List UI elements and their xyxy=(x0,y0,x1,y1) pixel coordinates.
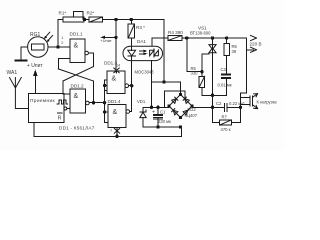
svg-text:R: R xyxy=(58,115,62,121)
svg-text:DD1.2: DD1.2 xyxy=(71,84,84,89)
svg-text:R3 *: R3 * xyxy=(136,25,145,30)
svg-text:DD1.1: DD1.1 xyxy=(70,32,83,37)
svg-text:220 мк: 220 мк xyxy=(158,119,171,124)
svg-text:DD1.4: DD1.4 xyxy=(108,99,121,104)
svg-text:C1: C1 xyxy=(160,110,166,115)
svg-text:&: & xyxy=(112,76,117,83)
svg-text:R4 390: R4 390 xyxy=(168,30,183,35)
svg-text:КЦ407: КЦ407 xyxy=(185,113,198,118)
svg-text:0.01 мк: 0.01 мк xyxy=(218,83,232,88)
svg-text:&: & xyxy=(74,93,79,100)
svg-text:&: & xyxy=(113,109,118,116)
svg-text:220 В: 220 В xyxy=(250,42,262,47)
svg-text:1: 1 xyxy=(61,36,63,40)
svg-text:DD1 - К561ЛА7: DD1 - К561ЛА7 xyxy=(59,125,95,130)
svg-text:2: 2 xyxy=(61,41,63,45)
svg-text:470 к: 470 к xyxy=(221,127,231,132)
svg-text:VS1: VS1 xyxy=(198,25,207,30)
svg-text:330: 330 xyxy=(191,71,199,76)
svg-text:7: 7 xyxy=(110,129,112,133)
svg-text:К нагрузке: К нагрузке xyxy=(257,99,278,104)
svg-text:39: 39 xyxy=(232,49,237,54)
svg-text:RG1: RG1 xyxy=(30,32,41,38)
svg-text:ВТ138-600: ВТ138-600 xyxy=(190,31,211,36)
svg-text:C3: C3 xyxy=(221,67,227,72)
svg-text:R1*: R1* xyxy=(59,11,67,16)
svg-text:R7: R7 xyxy=(222,114,228,119)
svg-text:C2: C2 xyxy=(216,101,222,106)
svg-text:&: & xyxy=(74,43,79,50)
svg-text:DD1.3: DD1.3 xyxy=(104,61,117,66)
svg-text:Приемник: Приемник xyxy=(30,98,56,104)
svg-text:WA1: WA1 xyxy=(7,70,18,76)
svg-text:VD1: VD1 xyxy=(137,99,146,104)
svg-text:+: + xyxy=(152,110,155,116)
svg-text:DA1: DA1 xyxy=(137,39,146,44)
svg-text:R2*: R2* xyxy=(87,11,95,16)
svg-text:+Uпит: +Uпит xyxy=(100,38,112,43)
svg-text:+ Uпит: + Uпит xyxy=(27,63,43,69)
